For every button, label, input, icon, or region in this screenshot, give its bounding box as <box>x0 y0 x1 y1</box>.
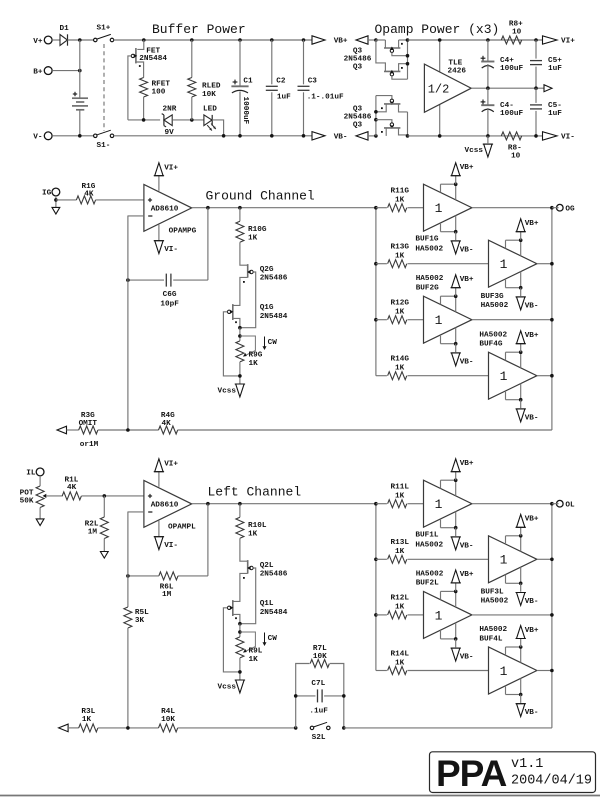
svg-text:PPA: PPA <box>436 753 507 794</box>
svg-text:50K: 50K <box>20 498 34 506</box>
switch S1+ <box>94 38 98 42</box>
capacitor C3 .1-.01uF <box>302 38 306 42</box>
svg-text:HA5002: HA5002 <box>416 570 444 578</box>
wire output BUF4G <box>537 375 552 377</box>
svg-text:100: 100 <box>152 89 166 97</box>
wire input BUF2G <box>408 319 424 321</box>
svg-text:R10L: R10L <box>248 522 267 530</box>
svg-text:IL: IL <box>26 470 36 478</box>
svg-text:Vcss: Vcss <box>218 683 237 691</box>
port VB+ out <box>312 36 325 44</box>
svg-text:HA5002: HA5002 <box>415 246 443 254</box>
node feedback <box>126 428 130 432</box>
power Vcss G <box>236 384 244 397</box>
resistor R7L 10K <box>296 664 310 728</box>
buffer BUF3L HA5002 <box>489 536 537 583</box>
svg-text:Q2L: Q2L <box>260 562 274 570</box>
transistor Q3 lower lower 2N5486 <box>376 120 392 123</box>
svg-text:R10G: R10G <box>248 226 267 234</box>
svg-text:VB+: VB+ <box>334 38 348 46</box>
svg-text:C5-: C5- <box>548 102 562 110</box>
wire input BUF3G <box>408 263 489 265</box>
svg-text:1/2: 1/2 <box>428 82 450 96</box>
svg-text:1K: 1K <box>249 360 259 368</box>
svg-text:.1uF: .1uF <box>309 708 328 716</box>
resistor R2L 1M <box>103 496 105 517</box>
svg-text:BUF1L: BUF1L <box>415 532 438 540</box>
svg-text:Buffer Power: Buffer Power <box>152 22 246 37</box>
svg-text:2NR: 2NR <box>163 105 177 113</box>
svg-text:C7L: C7L <box>311 680 325 688</box>
svg-text:2004/04/19: 2004/04/19 <box>511 774 592 789</box>
transistor Q3 upper pair 2N5486 <box>374 38 378 42</box>
wire <box>81 495 143 497</box>
svg-text:VB-: VB- <box>525 598 539 606</box>
buffer BUF2L HA5002 <box>424 591 472 638</box>
wire top rail buffer power <box>114 39 313 41</box>
svg-text:1K: 1K <box>395 604 405 612</box>
port VB- out <box>312 132 325 140</box>
port VB+ in <box>356 36 368 44</box>
wire <box>239 658 241 680</box>
resistor R4L 10K <box>159 724 178 732</box>
svg-text:Vcss: Vcss <box>465 147 484 155</box>
transistor Q3 upper lower 2N5486 <box>384 70 400 72</box>
svg-text:Q3: Q3 <box>353 105 363 113</box>
resistor R14G 1K <box>376 375 387 377</box>
wire output <box>192 503 376 505</box>
svg-text:2426: 2426 <box>448 67 467 75</box>
svg-text:OPAMPG: OPAMPG <box>169 227 197 235</box>
svg-text:v1.1: v1.1 <box>511 757 543 772</box>
wire <box>239 328 241 341</box>
capacitor C5+ 1uF <box>534 38 538 42</box>
svg-text:C2: C2 <box>276 77 286 85</box>
node zobel left <box>294 726 298 730</box>
wire feedback bottom G <box>178 429 552 431</box>
svg-text:OMIT: OMIT <box>79 420 98 428</box>
wire bottom rail buffer power <box>114 135 313 137</box>
buffer BUF1G HA5002 <box>424 184 472 231</box>
wire input BUF2L <box>408 614 424 616</box>
svg-text:Left Channel: Left Channel <box>208 485 302 500</box>
svg-text:HA5002: HA5002 <box>415 542 443 550</box>
resistor R8- 10 <box>501 132 521 140</box>
wire <box>56 199 77 201</box>
port R3L arrow <box>59 724 69 732</box>
svg-text:C1: C1 <box>243 77 253 85</box>
wire buffer input column <box>375 504 377 671</box>
svg-text:R11L: R11L <box>391 484 410 492</box>
diode D1 <box>52 39 60 41</box>
wire <box>172 119 204 121</box>
svg-text:.1-.01uF: .1-.01uF <box>307 94 344 102</box>
switch S2L <box>310 726 314 730</box>
wire Q3 upper left vert <box>376 40 386 71</box>
svg-text:Ground Channel: Ground Channel <box>206 189 315 204</box>
svg-text:VB-: VB- <box>525 302 539 310</box>
svg-text:OPAMPL: OPAMPL <box>168 523 196 531</box>
wire battery bottom lead <box>79 110 81 136</box>
port VB- in <box>356 132 368 140</box>
pot POT 50K <box>36 486 44 508</box>
svg-text:1: 1 <box>435 497 443 512</box>
svg-text:1: 1 <box>435 313 443 328</box>
wire output BUF2L <box>472 614 552 616</box>
svg-text:OG: OG <box>565 205 575 213</box>
svg-text:2N5486: 2N5486 <box>344 55 372 63</box>
power VI+ opampL <box>158 472 160 487</box>
node <box>238 134 242 138</box>
capacitor C6G 10pF <box>173 279 208 281</box>
svg-text:CW: CW <box>268 635 278 643</box>
svg-text:VB+: VB+ <box>525 220 539 228</box>
svg-text:1: 1 <box>500 257 508 272</box>
node <box>238 670 242 674</box>
svg-text:R8-: R8- <box>508 145 522 153</box>
wire <box>52 135 93 137</box>
svg-text:R8+: R8+ <box>509 21 523 29</box>
svg-text:Q3: Q3 <box>353 121 363 129</box>
svg-text:1K: 1K <box>395 548 405 556</box>
svg-text:1K: 1K <box>249 656 259 664</box>
svg-text:1: 1 <box>500 369 508 384</box>
svg-text:1: 1 <box>435 608 443 623</box>
logo box PPA v1.1 <box>430 752 596 793</box>
svg-text:Q3: Q3 <box>353 63 363 71</box>
buffer BUF4L HA5002 <box>489 647 537 694</box>
wire <box>98 727 159 729</box>
svg-text:C5+: C5+ <box>548 57 562 65</box>
svg-text:VB-: VB- <box>460 542 474 550</box>
svg-text:OL: OL <box>565 501 575 509</box>
svg-text:1K: 1K <box>248 530 258 538</box>
wire <box>68 39 94 41</box>
node RLED/LED <box>190 118 194 122</box>
wire output BUF1G <box>472 207 552 209</box>
svg-text:AD8610: AD8610 <box>151 206 179 214</box>
node <box>126 278 130 282</box>
svg-text:R5L: R5L <box>135 609 149 617</box>
power VI- opampG <box>158 225 160 241</box>
svg-text:VB-: VB- <box>460 654 474 662</box>
power Vcss L <box>236 680 244 693</box>
svg-text:4K: 4K <box>161 420 171 428</box>
wire top rail opamp power <box>408 39 545 41</box>
svg-text:Q3: Q3 <box>353 47 363 55</box>
capacitor C2 1uF <box>270 38 274 42</box>
wire output BUF3L <box>537 558 552 560</box>
node <box>534 134 538 138</box>
svg-text:2N5486: 2N5486 <box>260 571 288 579</box>
svg-text:1K: 1K <box>395 253 405 261</box>
node zobel right <box>342 726 346 730</box>
power VI+ opampG <box>158 176 160 191</box>
wire input BUF1G <box>408 207 424 209</box>
svg-text:S1+: S1+ <box>97 25 111 33</box>
wire <box>96 199 144 201</box>
wire <box>39 508 41 519</box>
svg-text:IG: IG <box>42 190 52 198</box>
svg-text:1: 1 <box>435 201 443 216</box>
node V+/battery junction <box>78 38 82 42</box>
svg-text:R14L: R14L <box>391 650 410 658</box>
svg-text:CW: CW <box>268 339 278 347</box>
svg-text:2N5486: 2N5486 <box>344 113 372 121</box>
transistor Q2L 2N5486 <box>247 560 249 574</box>
svg-text:V-: V- <box>33 134 42 142</box>
wire <box>52 70 80 72</box>
wire <box>239 362 241 384</box>
node <box>302 134 306 138</box>
svg-text:9V: 9V <box>165 129 175 137</box>
svg-text:1uF: 1uF <box>548 110 562 118</box>
svg-text:BUF1G: BUF1G <box>415 236 438 244</box>
node <box>486 86 490 90</box>
svg-text:1: 1 <box>500 553 508 568</box>
svg-text:1K: 1K <box>395 365 405 373</box>
transistor Q1G 2N5484 <box>232 304 234 320</box>
svg-text:Opamp Power (x3): Opamp Power (x3) <box>375 22 500 37</box>
svg-text:R9G: R9G <box>249 351 263 359</box>
svg-text:R3L: R3L <box>81 708 95 716</box>
wire bottom rail opamp power <box>408 135 545 137</box>
wire buffer input column <box>375 208 377 376</box>
svg-text:V+: V+ <box>33 38 43 46</box>
svg-text:VB+: VB+ <box>460 276 474 284</box>
resistor RLED 10K <box>190 38 194 42</box>
svg-text:C4-: C4- <box>500 102 514 110</box>
svg-text:1M: 1M <box>88 528 98 536</box>
svg-text:1K: 1K <box>395 197 405 205</box>
svg-text:VB-: VB- <box>460 358 474 366</box>
svg-text:VI-: VI- <box>164 542 178 550</box>
regulator U2 TLE2426 <box>439 40 441 136</box>
resistor R12G 1K <box>376 319 387 321</box>
node <box>238 326 242 330</box>
svg-text:Q1G: Q1G <box>260 304 274 312</box>
svg-text:BUF3G: BUF3G <box>481 293 504 301</box>
svg-text:100uF: 100uF <box>500 65 523 73</box>
svg-text:10K: 10K <box>161 716 175 724</box>
svg-text:HA5002: HA5002 <box>479 331 507 339</box>
svg-text:Vcss: Vcss <box>218 387 237 395</box>
svg-text:VB-: VB- <box>525 414 539 422</box>
svg-text:1K: 1K <box>395 659 405 667</box>
transistor Q1L 2N5484 <box>232 600 234 616</box>
node <box>238 630 242 634</box>
svg-text:R3G: R3G <box>81 412 95 420</box>
node <box>222 134 226 138</box>
resistor R4G 4K <box>159 426 178 434</box>
wire input BUF4L <box>408 670 489 672</box>
svg-text:Q1L: Q1L <box>260 600 274 608</box>
svg-text:LED: LED <box>203 105 217 113</box>
wire <box>55 196 57 208</box>
svg-text:or1M: or1M <box>80 441 99 449</box>
power VI- opampL <box>158 521 160 537</box>
node <box>238 622 242 626</box>
capacitor C4- 100uF <box>487 88 489 105</box>
op-amp OPAMPL AD8610 <box>144 481 192 528</box>
svg-text:TLE: TLE <box>448 59 462 67</box>
node <box>534 86 538 90</box>
svg-text:R13G: R13G <box>391 244 410 252</box>
svg-text:R4L: R4L <box>161 708 175 716</box>
wire feedback left rail G <box>128 215 144 217</box>
wire feedback left rail L <box>128 511 144 513</box>
node RFET/ZNR <box>142 118 146 122</box>
capacitor C5- 1uF <box>535 88 537 103</box>
svg-text:HA5002: HA5002 <box>481 598 509 606</box>
svg-text:10K: 10K <box>313 653 327 661</box>
svg-text:VB-: VB- <box>460 246 474 254</box>
svg-text:C3: C3 <box>308 77 318 85</box>
svg-text:R12L: R12L <box>391 595 410 603</box>
capacitor C1 1000uF <box>238 38 242 42</box>
trimpot R9G 1K <box>236 341 244 362</box>
svg-text:4K: 4K <box>67 484 77 492</box>
port VI- <box>543 132 558 140</box>
wire battery top lead <box>79 40 81 98</box>
svg-text:VB+: VB+ <box>460 571 474 579</box>
resistor R11L 1K <box>376 503 387 505</box>
op-amp OPAMPG AD8610 <box>144 185 192 232</box>
svg-text:VI+: VI+ <box>164 164 178 172</box>
dashed gang line S1 <box>103 44 105 131</box>
svg-text:HA5002: HA5002 <box>479 626 507 634</box>
led LED <box>204 115 212 126</box>
svg-text:BUF4G: BUF4G <box>479 341 502 349</box>
node <box>78 134 82 138</box>
switch S1- <box>94 134 98 138</box>
svg-text:HA5002: HA5002 <box>416 275 444 283</box>
svg-text:VB-: VB- <box>525 709 539 717</box>
svg-text:RLED: RLED <box>202 83 221 91</box>
svg-text:R7L: R7L <box>313 645 327 653</box>
node <box>270 134 274 138</box>
resistor R1G 4K <box>76 196 95 204</box>
buffer BUF4G HA5002 <box>489 352 537 399</box>
port R3G arrow <box>57 426 67 434</box>
buffer BUF3G HA5002 <box>489 240 537 287</box>
svg-text:B+: B+ <box>33 68 43 76</box>
wire output rail <box>551 208 553 430</box>
wire input BUF4G <box>408 375 489 377</box>
svg-text:1000uF: 1000uF <box>241 97 249 125</box>
svg-text:VB+: VB+ <box>525 332 539 340</box>
zener ZNR 9V <box>163 115 165 126</box>
svg-text:AD8610: AD8610 <box>151 502 179 510</box>
resistor R3L 1K <box>79 724 98 732</box>
resistor R3G OMIT <box>79 426 98 434</box>
svg-text:R9L: R9L <box>249 647 263 655</box>
transistor Q3 lower pair 2N5486 <box>374 134 378 138</box>
resistor R10L 1K <box>238 502 242 506</box>
svg-text:1K: 1K <box>395 309 405 317</box>
svg-text:2N5484: 2N5484 <box>260 313 288 321</box>
svg-text:C4+: C4+ <box>500 57 514 65</box>
wire mid row <box>128 119 160 121</box>
node <box>78 69 82 73</box>
svg-text:3K: 3K <box>135 617 145 625</box>
buffer BUF1L HA5002 <box>424 480 472 527</box>
svg-text:BUF3L: BUF3L <box>481 589 504 597</box>
transistor Q2G 2N5486 <box>247 264 249 278</box>
svg-text:HA5002: HA5002 <box>481 302 509 310</box>
wire Q3 upper right vert <box>407 40 409 79</box>
svg-text:S1-: S1- <box>97 142 111 150</box>
resistor R1L 4K <box>62 492 81 500</box>
resistor R5L 3K <box>124 607 132 628</box>
wire output BUF4L <box>537 670 552 672</box>
resistor R11G 1K <box>376 207 387 209</box>
svg-text:10K: 10K <box>202 91 216 99</box>
wire output rail <box>551 504 553 728</box>
svg-text:C6G: C6G <box>163 291 177 299</box>
svg-text:R4G: R4G <box>161 412 175 420</box>
svg-text:1uF: 1uF <box>277 94 291 102</box>
svg-text:BUF4L: BUF4L <box>479 635 502 643</box>
svg-text:1K: 1K <box>395 493 405 501</box>
svg-text:VI-: VI- <box>164 246 178 254</box>
wire <box>239 624 241 637</box>
node R2L tap <box>103 494 107 498</box>
resistor R6L 1M <box>178 575 208 577</box>
svg-text:R13L: R13L <box>391 539 410 547</box>
svg-text:R12G: R12G <box>391 300 410 308</box>
label CW arrow <box>264 633 266 645</box>
svg-text:POT: POT <box>20 490 34 498</box>
wire <box>178 727 296 729</box>
svg-text:10pF: 10pF <box>160 301 179 309</box>
node feedback L <box>126 726 130 730</box>
capacitor C4+ 100uF <box>486 38 490 42</box>
svg-text:VB+: VB+ <box>525 627 539 635</box>
resistor R8+ 10 <box>501 36 521 44</box>
svg-text:BUF2L: BUF2L <box>416 580 439 588</box>
svg-text:1: 1 <box>500 664 508 679</box>
svg-text:R2L: R2L <box>85 520 99 528</box>
svg-text:RFET: RFET <box>152 81 171 89</box>
svg-text:VB+: VB+ <box>460 460 474 468</box>
wire <box>240 242 248 265</box>
wire to C6G <box>207 208 209 280</box>
node <box>126 574 130 578</box>
svg-text:4K: 4K <box>84 190 94 198</box>
battery BT1 <box>73 93 77 95</box>
wire to R6L <box>207 504 209 576</box>
svg-text:S2L: S2L <box>312 734 326 742</box>
ground arrow pot <box>36 519 44 526</box>
svg-text:VB+: VB+ <box>525 516 539 524</box>
port VI+ <box>543 36 558 44</box>
wire <box>127 628 129 728</box>
resistor RFET 100 <box>140 78 148 98</box>
svg-text:100uF: 100uF <box>500 110 523 118</box>
wire mid rail <box>471 87 544 89</box>
resistor R13G 1K <box>376 263 387 265</box>
resistor R13L 1K <box>376 558 387 560</box>
node <box>54 198 58 202</box>
wire input BUF1L <box>408 503 424 505</box>
wire <box>98 429 159 431</box>
bottom border <box>0 795 600 797</box>
svg-text:1M: 1M <box>162 591 172 599</box>
terminal OG <box>557 204 564 211</box>
wire output BUF1L <box>472 503 552 505</box>
node <box>238 334 242 338</box>
